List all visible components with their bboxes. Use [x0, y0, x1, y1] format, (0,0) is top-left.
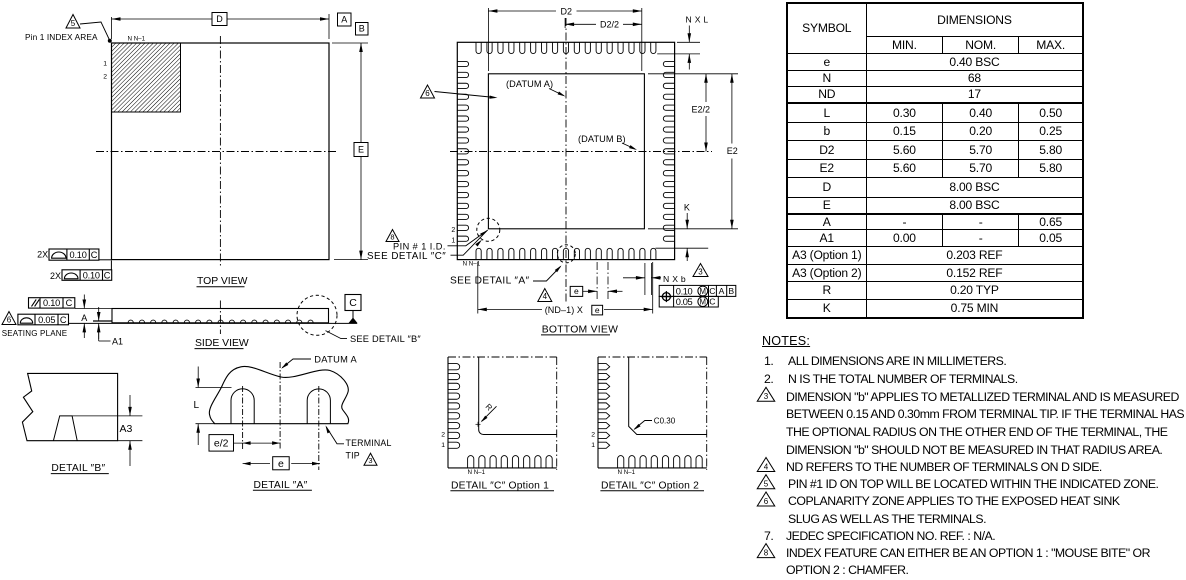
- svg-text:Pin 1 INDEX AREA: Pin 1 INDEX AREA: [25, 32, 98, 42]
- detail C option 1 break lines: [448, 357, 557, 470]
- svg-text:e/2: e/2: [214, 438, 229, 450]
- detail C option 2 bottom terminals: [618, 456, 714, 468]
- detail A terminal arch right: [307, 389, 330, 424]
- svg-text:BOTTOM VIEW: BOTTOM VIEW: [542, 324, 618, 335]
- svg-text:A: A: [341, 14, 347, 24]
- note 8 marker: [757, 544, 775, 558]
- svg-text:N N–1: N N–1: [128, 36, 146, 43]
- dimension e bottom view: [570, 262, 622, 300]
- datum A label detail A: [281, 354, 357, 368]
- svg-text:B: B: [359, 24, 365, 34]
- dimension L detail A: [194, 367, 232, 446]
- svg-text:DATUM A: DATUM A: [314, 354, 357, 364]
- dimension E2/2: [648, 74, 738, 152]
- see detail A leader: [533, 265, 562, 281]
- bottom view centerline vertical: [565, 18, 567, 302]
- dimension N X b: [623, 263, 686, 295]
- svg-text:SEE DETAIL ″A″: SEE DETAIL ″A″: [450, 275, 530, 286]
- svg-text:e: e: [278, 458, 284, 470]
- detail C option 2 outer edges: [598, 357, 707, 468]
- dimensions table: [786, 2, 1084, 319]
- svg-text:1: 1: [451, 238, 455, 245]
- svg-text:3: 3: [368, 456, 372, 465]
- detail B title: [51, 463, 109, 474]
- detail A centerline arch left: [242, 386, 244, 449]
- svg-text:8: 8: [390, 233, 394, 242]
- svg-text:SEATING PLANE: SEATING PLANE: [2, 329, 68, 338]
- svg-text:C: C: [66, 298, 73, 308]
- svg-text:TERMINAL: TERMINAL: [346, 438, 392, 448]
- bottom view outline: [457, 42, 674, 259]
- dimension ND-1 X e: [478, 262, 653, 315]
- svg-text:C: C: [709, 297, 715, 307]
- note 4 marker: [757, 458, 775, 472]
- svg-text:2: 2: [441, 432, 445, 439]
- pin 1 index area label with note 5 triangle: [25, 15, 112, 43]
- side view title: [195, 338, 249, 349]
- detail B callout circle: [297, 295, 337, 335]
- svg-text:TOP VIEW: TOP VIEW: [197, 276, 248, 287]
- svg-text:2: 2: [451, 227, 455, 234]
- detail B terminal trapezoid: [53, 416, 142, 441]
- side view body: [112, 309, 329, 323]
- svg-text:SIDE VIEW: SIDE VIEW: [195, 338, 249, 349]
- position tolerance frame: [659, 285, 736, 307]
- svg-text:6: 6: [425, 89, 430, 98]
- svg-text:DETAIL ″A″: DETAIL ″A″: [254, 480, 308, 491]
- svg-text:8: 8: [764, 548, 769, 557]
- dimension A1 side view: [93, 307, 123, 346]
- dimension E2: [648, 74, 738, 229]
- detail C option 1 pin labels: [441, 432, 485, 476]
- svg-text:(DATUM B): (DATUM B): [578, 134, 626, 144]
- datum A centerline detail A: [279, 362, 281, 449]
- svg-text:R: R: [484, 402, 495, 413]
- svg-text:C0.30: C0.30: [654, 417, 676, 426]
- svg-text:0.10: 0.10: [70, 250, 87, 260]
- parallelism tolerance frame: [29, 298, 75, 309]
- detail C option 2 pad corner: [629, 357, 707, 435]
- svg-text:DETAIL ″B″: DETAIL ″B″: [51, 463, 105, 474]
- datum A box: [338, 13, 352, 26]
- dimension A side view: [75, 295, 112, 339]
- svg-text:M: M: [700, 287, 707, 296]
- svg-text:L: L: [194, 400, 200, 411]
- detail A terminal cross-section blob: [209, 366, 348, 423]
- detail C option 2 pin labels: [591, 432, 635, 476]
- detail C option 2 title: [600, 480, 704, 491]
- svg-text:B: B: [728, 286, 734, 296]
- pin1 id leaders: [448, 230, 488, 255]
- svg-text:2: 2: [591, 432, 595, 439]
- detail A title: [253, 480, 312, 491]
- svg-text:D2: D2: [561, 6, 573, 16]
- svg-text:TIP: TIP: [346, 451, 360, 461]
- svg-text:0.10: 0.10: [83, 270, 100, 280]
- svg-text:0.05: 0.05: [38, 315, 55, 325]
- svg-text:(ND–1) X: (ND–1) X: [545, 305, 583, 315]
- svg-text:D: D: [216, 14, 223, 24]
- pin1 corner callout circle: [477, 218, 500, 241]
- terminal tip label: [326, 425, 392, 465]
- svg-text:N X b: N X b: [663, 274, 686, 284]
- svg-text:D2/2: D2/2: [600, 20, 619, 30]
- dimension e/2 detail A: [209, 435, 280, 452]
- svg-text:0.10: 0.10: [43, 298, 60, 308]
- svg-text:1: 1: [441, 442, 445, 449]
- profile tolerance frame 2X 0.10 C upper: [37, 249, 111, 260]
- detail C option 1 pad corner: [479, 357, 557, 435]
- svg-text:A: A: [719, 286, 725, 296]
- svg-text:5: 5: [71, 19, 76, 28]
- svg-text:DETAIL ″C″ Option 1: DETAIL ″C″ Option 1: [451, 480, 549, 491]
- detail C option 1 title: [450, 480, 554, 491]
- svg-text:2X: 2X: [37, 250, 48, 260]
- note 8 triangle bottom view: [386, 230, 399, 242]
- detail C option 2 chamfer callout: [633, 417, 675, 431]
- svg-text:4: 4: [764, 462, 769, 471]
- note 4 triangle: [538, 289, 552, 302]
- svg-text:5: 5: [764, 480, 769, 489]
- svg-text:6: 6: [7, 315, 12, 324]
- svg-text:A3: A3: [120, 423, 133, 435]
- dimension D2/2: [565, 18, 642, 30]
- detail C option 1 outer edges: [448, 357, 557, 468]
- note 6 marker: [757, 492, 775, 506]
- datum C box with seating plane datum triangle: [345, 295, 361, 324]
- svg-text:C: C: [349, 297, 357, 309]
- svg-text:E2: E2: [727, 146, 738, 156]
- svg-text:0.10: 0.10: [676, 286, 693, 296]
- svg-text:3: 3: [698, 267, 703, 276]
- dimension A3: [118, 395, 143, 466]
- svg-text:C: C: [709, 286, 715, 296]
- svg-text:SEE DETAIL ″B″: SEE DETAIL ″B″: [350, 334, 421, 344]
- svg-text:6: 6: [764, 497, 769, 506]
- svg-text:A1: A1: [112, 336, 123, 346]
- svg-text:1: 1: [591, 442, 595, 449]
- dimension N X L: [657, 15, 708, 70]
- top view title: [197, 276, 248, 287]
- bottom view centerline horizontal: [450, 151, 712, 153]
- dimension D2: [488, 6, 641, 71]
- datum B box: [356, 23, 369, 36]
- svg-text:C: C: [60, 315, 67, 325]
- svg-text:4: 4: [543, 292, 548, 301]
- note 6 triangle bottom view with leader: [421, 85, 498, 99]
- dimension K: [656, 203, 709, 261]
- svg-text:N N–1: N N–1: [468, 469, 486, 476]
- svg-text:E2/2: E2/2: [692, 105, 711, 115]
- svg-text:2X: 2X: [50, 271, 61, 281]
- profile tolerance frame 2X 0.10 C lower: [50, 261, 112, 281]
- svg-text:3: 3: [764, 392, 769, 401]
- svg-text:C: C: [104, 270, 111, 280]
- svg-text:A: A: [81, 313, 87, 323]
- dimension e detail A: [243, 457, 320, 470]
- svg-text:e: e: [574, 286, 579, 296]
- profile tolerance frame 0.05 C seating: [18, 314, 69, 325]
- note 5 marker: [757, 475, 775, 489]
- svg-text:e: e: [595, 305, 600, 315]
- svg-text:1: 1: [103, 61, 107, 68]
- seating plane line: [69, 322, 358, 324]
- svg-text:0.05: 0.05: [676, 297, 693, 307]
- note 6 triangle side view: [2, 312, 16, 325]
- dimension D: [112, 13, 330, 40]
- detail C option 1 left terminals: [448, 364, 460, 449]
- notes list: [762, 334, 810, 348]
- detail C option 1 bottom terminals: [468, 456, 564, 468]
- terminals bottom view: [457, 42, 674, 259]
- detail A callout circle: [557, 245, 575, 263]
- note 3 marker: [757, 387, 775, 401]
- svg-text:SEE DETAIL ″C″: SEE DETAIL ″C″: [367, 251, 446, 262]
- pin 1 index area hatched zone: [112, 43, 181, 112]
- svg-text:(DATUM A): (DATUM A): [506, 79, 553, 89]
- side view centerline: [219, 301, 221, 335]
- side view terminal bumps: [128, 320, 313, 323]
- detail C option 1 radius callout: [476, 402, 497, 427]
- svg-text:C: C: [91, 250, 98, 260]
- top view centerline vertical: [219, 36, 221, 266]
- detail C option 2 left terminals: [598, 364, 610, 449]
- exposed pad outline with pin1 corner radius: [488, 74, 644, 229]
- detail C option 2 break lines: [598, 357, 707, 470]
- svg-text:E: E: [358, 144, 364, 154]
- detail B cross-section outline: [22, 373, 117, 440]
- bottom view title: [541, 324, 618, 335]
- svg-text:PIN # 1 I.D.: PIN # 1 I.D.: [393, 241, 446, 251]
- dimension E: [332, 43, 368, 260]
- note 3 triangle bottom view: [693, 264, 708, 277]
- svg-text:N X L: N X L: [686, 15, 709, 25]
- datum A label bottom view: [506, 79, 566, 97]
- top view centerline horizontal: [96, 151, 336, 153]
- see detail B leader: [326, 331, 422, 344]
- svg-text:M: M: [700, 298, 707, 307]
- datum B label bottom view: [578, 134, 637, 150]
- top view outline: [112, 43, 330, 260]
- svg-text:DETAIL ″C″ Option 2: DETAIL ″C″ Option 2: [601, 480, 699, 491]
- svg-text:K: K: [684, 203, 690, 213]
- svg-text:N N–1: N N–1: [618, 469, 636, 476]
- svg-text:2: 2: [103, 74, 107, 81]
- detail A terminal arch left: [231, 389, 254, 424]
- detail A centerline arch right: [318, 386, 320, 470]
